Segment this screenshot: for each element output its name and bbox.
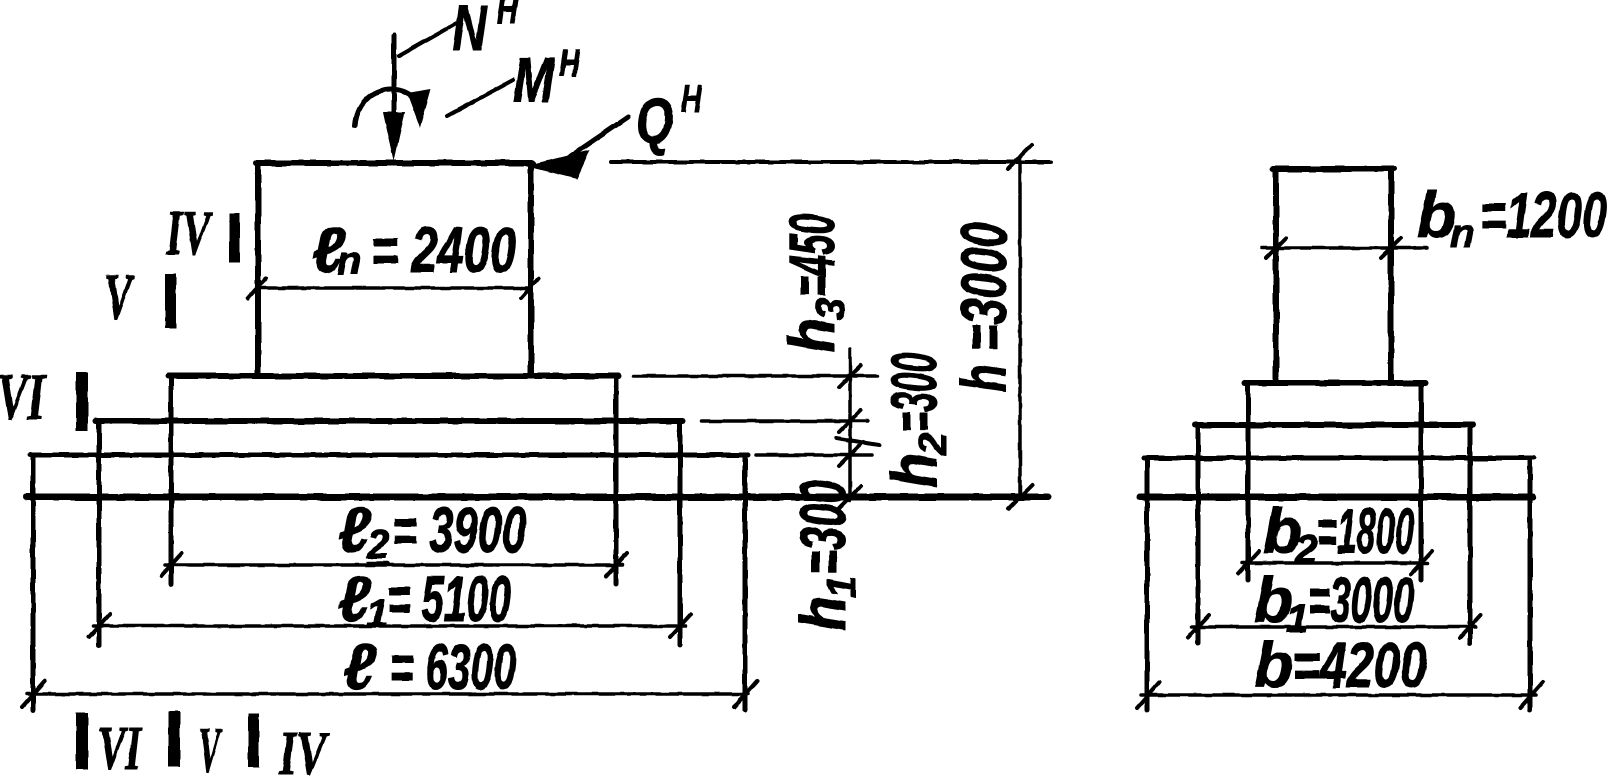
h3/h2/h1 dimension line [848, 349, 852, 500]
short break line between h2/h1 [836, 438, 879, 445]
label h1=300 (rotated) [787, 480, 864, 631]
ground line (left view) [27, 494, 1048, 501]
leader M [447, 80, 513, 116]
svg-text:=1200: =1200 [1480, 179, 1607, 251]
dimension l=6300 [27, 692, 748, 696]
force N arrow [392, 35, 397, 125]
step1 (right view) [1245, 380, 1425, 386]
top step (left view) [168, 373, 619, 379]
slab (left view) top edge [30, 453, 748, 458]
svg-text:M: M [513, 45, 555, 117]
dimension b=4200 [1141, 693, 1536, 697]
svg-text:2: 2 [911, 433, 955, 456]
svg-text:n: n [1450, 212, 1474, 256]
slab side / extension lines [1147, 458, 1530, 710]
svg-text:IV: IV [165, 197, 213, 268]
label h2=300 (rotated) [878, 353, 955, 488]
svg-text:= 3900: = 3900 [392, 494, 526, 566]
svg-text:=450: =450 [776, 214, 848, 297]
svg-text:VI: VI [0, 361, 46, 435]
svg-text:H: H [559, 43, 580, 85]
column (left view) outline [256, 163, 533, 376]
label M^H [513, 45, 555, 117]
svg-text:Q: Q [636, 85, 673, 156]
middle step (left view) [96, 418, 683, 424]
section mark V (left) [104, 260, 135, 335]
label N^H [452, 0, 488, 64]
svg-text:= 5100: = 5100 [387, 563, 511, 635]
svg-text:= 2400: = 2400 [371, 214, 516, 286]
slab (right view) top edge [1144, 456, 1534, 461]
step2 (right view) [1195, 422, 1473, 428]
ground line (right view) [1140, 494, 1533, 501]
label Q^H [636, 85, 673, 156]
svg-text:H: H [497, 0, 518, 32]
extension line at column top to h dim [611, 160, 1051, 164]
dimension b2=1800 [1242, 561, 1428, 565]
svg-text:h: h [878, 453, 949, 488]
svg-text:N: N [452, 0, 488, 64]
svg-text:= 6300: = 6300 [390, 631, 516, 703]
svg-text:IV: IV [278, 719, 329, 776]
svg-text:=300: =300 [878, 353, 950, 432]
label h3=450 (rotated) [776, 214, 853, 353]
svg-text:=4200: =4200 [1292, 629, 1427, 701]
svg-text:V: V [104, 260, 135, 335]
svg-text:3: 3 [809, 298, 853, 320]
moment M arc [355, 89, 414, 126]
svg-text:h: h [776, 318, 847, 353]
dimension l1=5100 [93, 624, 686, 628]
svg-text:n: n [337, 239, 361, 283]
svg-text:ℓ: ℓ [343, 631, 377, 703]
middle step side / extension lines [99, 421, 680, 645]
svg-text:=300: =300 [787, 480, 859, 575]
svg-text:=1800: =1800 [1317, 495, 1414, 567]
svg-text:h: h [787, 596, 858, 631]
leader N [399, 22, 459, 56]
svg-text:H: H [681, 79, 702, 121]
svg-text:VI: VI [98, 715, 142, 776]
dimension b1=3000 [1192, 625, 1476, 629]
extension line slab top level [756, 453, 872, 457]
bottom section marks VI V IV [76, 713, 88, 770]
label h=3000 (rotated) [948, 222, 1020, 392]
extension line top step level [634, 374, 877, 378]
svg-text:2: 2 [366, 523, 389, 567]
svg-text:1: 1 [366, 592, 388, 636]
svg-text:b: b [1254, 629, 1293, 701]
svg-text:h =3000: h =3000 [948, 222, 1020, 392]
dimension ln=2400 line [258, 286, 531, 290]
dimension bn=1200 [1262, 246, 1426, 250]
section mark IV (left) [165, 197, 213, 268]
svg-text:=3000: =3000 [1308, 564, 1414, 636]
extension line middle step level [701, 419, 868, 423]
step2 side / extension lines [1198, 425, 1470, 643]
dimension l2=3900 [165, 563, 622, 567]
svg-text:1: 1 [820, 576, 864, 598]
column (right view) outline [1273, 169, 1394, 383]
top step side / extension lines [171, 376, 616, 584]
section mark VI (left) [0, 361, 46, 435]
slab side / extension lines [33, 455, 745, 710]
svg-text:V: V [198, 716, 223, 776]
h=3000 dimension line [1018, 157, 1022, 497]
step1 side / extension lines [1248, 383, 1421, 580]
force Q arrow [525, 150, 590, 179]
